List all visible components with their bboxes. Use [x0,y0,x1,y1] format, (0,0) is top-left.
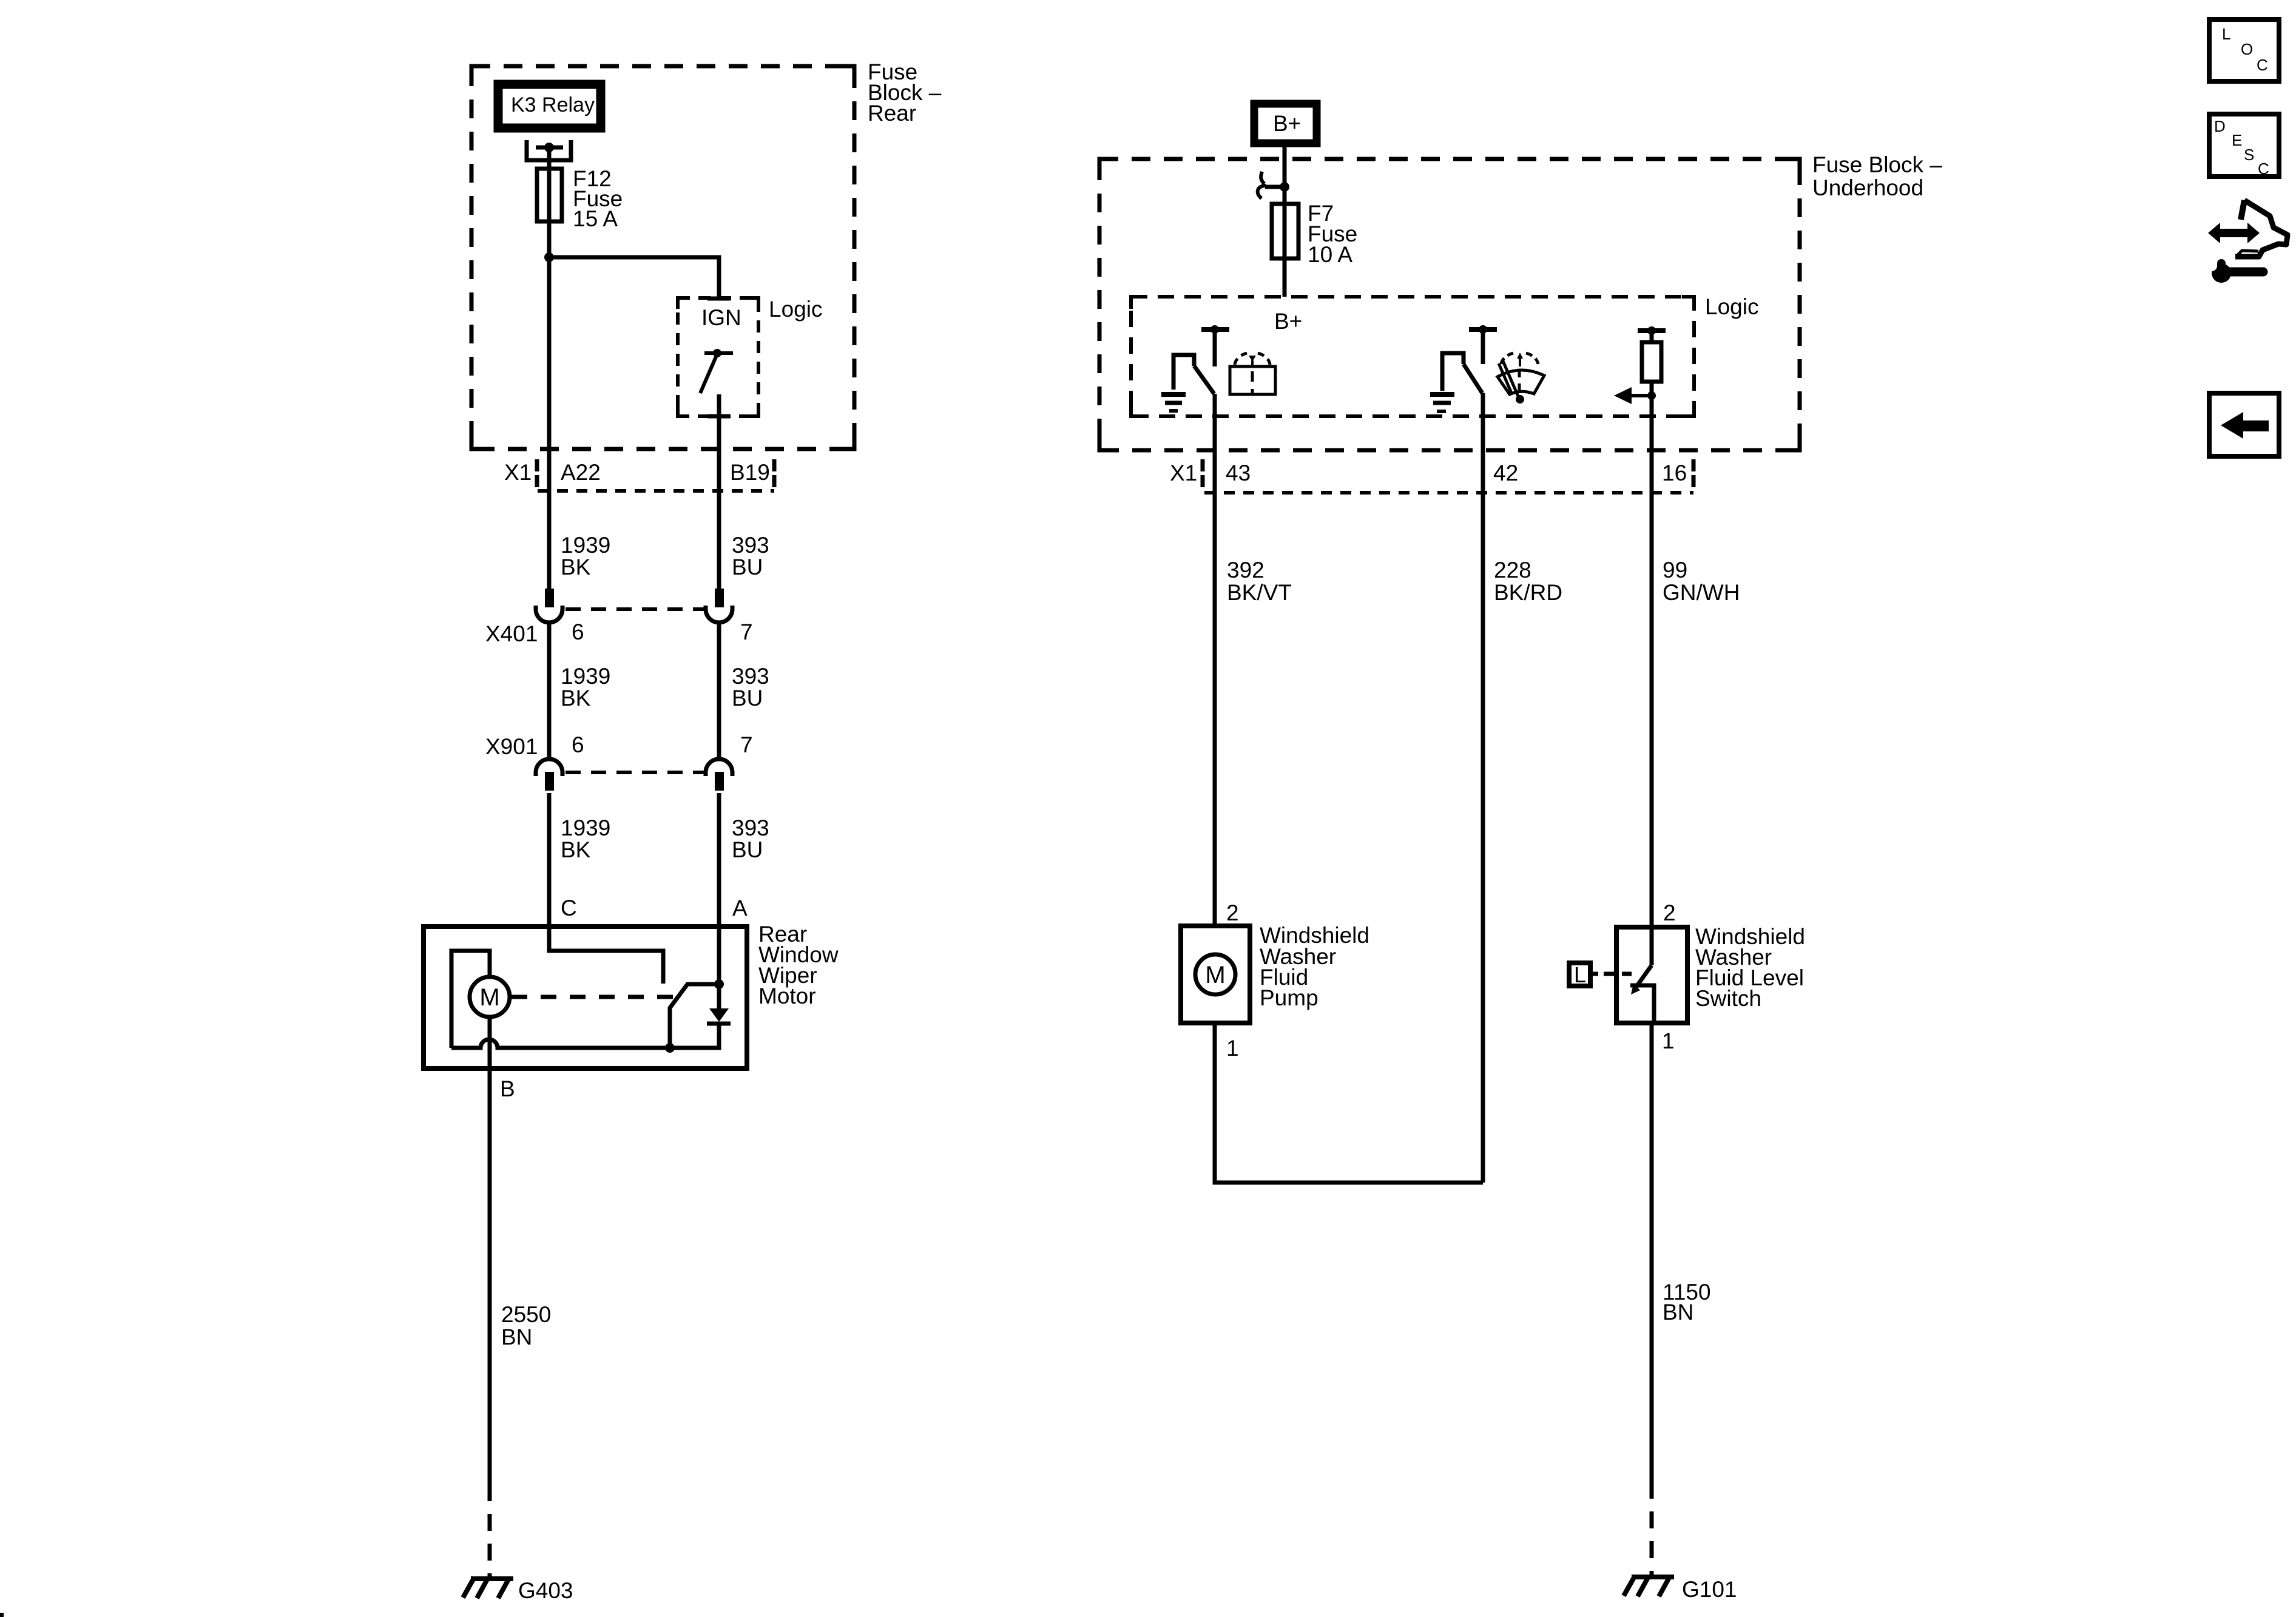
wiper icon [1497,353,1544,397]
svg-text:1: 1 [1226,1036,1239,1061]
svg-text:O: O [2241,40,2253,58]
node junction at fusible link [1280,182,1289,192]
svg-text:1939: 1939 [561,664,610,689]
resistor (pull-up, pin 16) [1642,342,1661,382]
svg-text:43: 43 [1226,461,1251,485]
tick at IGN box top [707,297,731,301]
svg-text:392: 392 [1227,558,1264,582]
wire 393 BU mid segment [717,623,721,759]
svg-text:B+: B+ [1274,309,1302,334]
svg-text:B19: B19 [730,460,770,485]
svg-text:C: C [561,896,577,920]
wire resistor to node [1650,382,1654,416]
repair icon double arrow [2208,223,2260,243]
svg-text:L: L [2222,25,2230,43]
svg-text:BN: BN [501,1325,532,1349]
level sensor linkage dashed [1604,972,1632,976]
svg-text:2: 2 [1226,900,1239,925]
arrow (signal to logic) [1631,394,1652,397]
node junction below fuse [544,252,554,262]
svg-text:Switch: Switch [1695,986,1761,1011]
back arrow icon box [2209,393,2279,456]
motor return rail with hop [451,1025,719,1048]
fuse F12 [537,169,562,221]
svg-text:BK/RD: BK/RD [1494,580,1562,605]
wire B19 from IGN switch down [717,394,721,589]
node junction pin 16 [1647,391,1656,400]
wire to fuse F7 [1283,187,1287,297]
ground (internal, pump control) [1161,394,1186,411]
svg-text:GN/WH: GN/WH [1663,580,1740,605]
ground G403 [463,1578,513,1598]
relay K3 contact symbol [527,140,571,160]
wire 393 BU lower segment [717,793,721,927]
svg-text:X901: X901 [485,734,538,759]
fusible link symbol [1258,172,1266,198]
wire A22 down from junction [547,257,552,589]
svg-text:B+: B+ [1273,111,1301,136]
svg-text:6: 6 [572,619,584,644]
svg-text:X401: X401 [485,621,538,646]
repair icon panel outline [2241,200,2244,220]
svg-text:393: 393 [732,533,769,558]
svg-text:S: S [2244,146,2254,164]
DESC icon box [2209,114,2279,177]
motor loop wire [451,951,490,1048]
wire 99 / 1150 BN down [1650,1023,1654,1499]
wire 16 down [1650,416,1654,927]
motor park switch arm [670,984,719,1048]
svg-text:Fuse Block –: Fuse Block – [1812,152,1942,177]
wire branch to IGN switch [549,257,719,299]
switch (washer pump control) [1173,355,1194,390]
windshield washer fluid pump box [1181,926,1250,1023]
svg-text:1: 1 [1662,1028,1675,1053]
svg-text:A: A [732,896,748,920]
connector X901 [485,732,753,791]
svg-text:BK: BK [561,837,591,862]
tick at IGN box bottom [707,414,731,419]
connector X1 (rear) separator dashes [537,459,774,487]
switch IGN dashed box (logic) [678,298,758,416]
level sensor L box [1569,963,1590,986]
svg-text:7: 7 [740,732,753,757]
svg-text:10 A: 10 A [1308,242,1352,267]
svg-text:Underhood: Underhood [1812,175,1923,200]
wire 43 down [1213,394,1217,927]
svg-text:16: 16 [1662,461,1687,485]
svg-text:2550: 2550 [501,1302,551,1327]
svg-text:Logic: Logic [1705,294,1758,319]
svg-text:M: M [479,984,499,1011]
svg-text:X1: X1 [504,460,532,485]
fuse F7 [1272,204,1298,258]
svg-text:1939: 1939 [561,815,610,840]
svg-text:BK/VT: BK/VT [1227,580,1292,605]
wire 1939 BK lower segment [547,793,552,927]
svg-text:X1: X1 [1170,461,1197,485]
node junction rail [665,1043,675,1053]
wire C inside motor (to fixed contact) [549,927,663,984]
relay K3 box [498,84,601,128]
svg-text:B: B [500,1076,515,1101]
svg-text:K3 Relay: K3 Relay [511,93,595,116]
connector X1 (underhood) separator dashes [1203,459,1693,487]
svg-text:6: 6 [572,732,584,757]
svg-text:G101: G101 [1682,1577,1737,1602]
svg-text:G403: G403 [518,1578,573,1603]
connector X401 [485,589,753,646]
svg-text:C: C [2257,56,2268,74]
svg-text:393: 393 [732,815,769,840]
connector X1 (underhood) bottom dashed line [1204,491,1693,495]
motor linkage dashed [512,995,673,999]
reservoir icon [1230,353,1275,394]
terminal T1 (B+ bus, pin 43 branch) [1201,327,1229,332]
ground (internal, washer sense) [1430,394,1454,411]
svg-text:C: C [2258,160,2269,178]
svg-text:L: L [1574,962,1586,987]
LOC icon box [2209,19,2279,81]
wire pump pin1 down and right [1215,1023,1483,1183]
svg-text:393: 393 [732,664,769,689]
B+ power box [1254,104,1317,143]
svg-text:15 A: 15 A [573,206,618,231]
level switch contact [1650,927,1654,965]
svg-text:BU: BU [732,686,763,711]
diode (park) [709,1008,729,1022]
terminal T3 (B+ bus, pin 16 branch) [1638,328,1666,333]
fuse block - underhood dashed box [1099,159,1800,450]
svg-text:M: M [1205,962,1225,988]
motor M1 circle [470,977,510,1017]
svg-text:7: 7 [740,619,753,644]
switch (washer switch sense) [1442,353,1464,391]
svg-text:99: 99 [1663,558,1687,582]
svg-text:42: 42 [1493,461,1518,485]
svg-text:1939: 1939 [561,533,610,558]
logic dashed box (underhood) [1131,297,1694,416]
page dot [0,1613,4,1617]
wire B from motor [488,1017,492,1501]
wire 1939 BK mid segment [547,623,552,759]
svg-text:Rear: Rear [868,101,916,126]
svg-text:D: D [2214,117,2226,135]
wire 2550 BN dashed end [488,1501,492,1578]
svg-text:BU: BU [732,837,763,862]
node junction A [714,979,724,989]
fuse block - rear dashed box [471,66,854,449]
svg-text:BN: BN [1663,1300,1693,1325]
wire A inside motor [717,927,721,984]
terminal T2 (B+ bus, pin 42 branch) [1469,327,1497,332]
wire 1150 BN dashed end [1650,1499,1654,1577]
svg-text:Motor: Motor [758,984,816,1008]
wire relay to junction [547,147,552,257]
svg-text:228: 228 [1494,558,1531,582]
svg-text:IGN: IGN [701,305,741,330]
svg-text:E: E [2232,131,2242,149]
rear window wiper motor box [424,927,747,1068]
switch IGN contact [704,351,733,355]
repair icon wrench [2227,268,2263,277]
wire 42 down [1481,393,1485,1183]
connector X1 (rear) bottom dashed line [538,489,774,493]
box corner pieces [471,66,1800,450]
svg-text:Pump: Pump [1260,985,1319,1010]
svg-text:Logic: Logic [769,297,822,322]
svg-text:BK: BK [561,686,591,711]
svg-text:A22: A22 [561,460,601,485]
svg-text:BK: BK [561,555,591,579]
windshield washer fluid level switch box [1616,927,1687,1023]
svg-text:2: 2 [1663,900,1676,925]
ground G101 [1624,1576,1674,1596]
svg-text:BU: BU [732,555,763,579]
wire B+ to fusible link [1283,147,1287,188]
pump motor M circle [1195,954,1235,994]
